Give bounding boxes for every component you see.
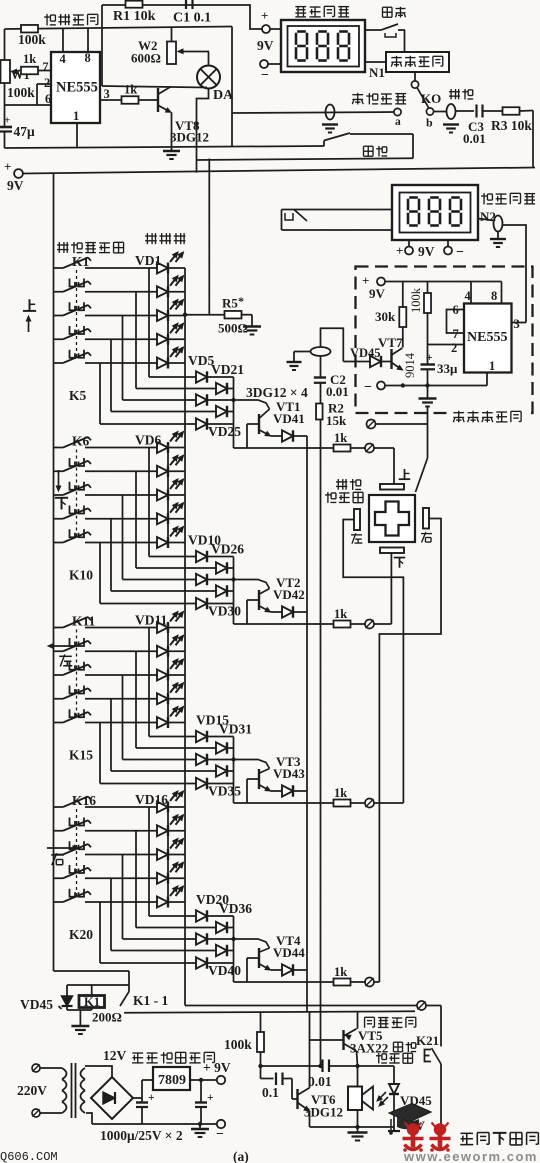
diode matrix row — [149, 371, 234, 382]
svg-text:3DG12: 3DG12 — [170, 130, 209, 145]
switch K3 — [54, 305, 92, 316]
transistor VT5 — [344, 1028, 384, 1051]
switch K6 — [54, 437, 92, 448]
svg-text:VD35: VD35 — [208, 784, 241, 799]
wire lamp bottom — [197, 89, 209, 161]
svg-text:0.01: 0.01 — [326, 384, 349, 399]
pin 2 U2 — [428, 341, 465, 355]
ground (speaker) — [348, 1127, 368, 1141]
jack (socket) on changeover — [322, 105, 338, 133]
diode matrix row — [111, 406, 234, 417]
wire key drop — [122, 675, 124, 760]
label 下 (dir) — [55, 470, 68, 510]
key coupler — [70, 506, 85, 514]
key coupler — [70, 458, 85, 466]
svg-text:6: 6 — [45, 92, 51, 106]
svg-text:0.01: 0.01 — [463, 131, 486, 146]
svg-text:−: − — [261, 68, 269, 83]
label VD35 — [208, 784, 241, 799]
pin 6 — [5, 92, 52, 106]
diode matrix row — [149, 731, 234, 742]
wire base feed — [247, 600, 259, 624]
LED VD19 — [157, 862, 184, 884]
label K20 — [69, 927, 93, 942]
LED VD5 — [157, 347, 184, 369]
label 外测提问键 — [57, 242, 124, 253]
svg-text:K20: K20 — [69, 927, 93, 942]
key coupler — [70, 482, 85, 490]
wire key drop — [135, 831, 137, 928]
node +9V supply — [4, 159, 24, 193]
diode matrix row — [100, 418, 234, 429]
wire key row — [85, 518, 185, 520]
label K5 — [69, 388, 87, 403]
switch counter2 reset — [282, 210, 393, 231]
wire key drop — [148, 448, 150, 557]
svg-text:3DG12 × 4: 3DG12 × 4 — [246, 385, 308, 400]
LED arrows — [377, 1092, 388, 1106]
svg-text:*: * — [238, 294, 244, 308]
wire bridge out — [133, 1080, 153, 1098]
svg-text:−: − — [216, 1127, 224, 1142]
diode matrix row — [111, 585, 234, 596]
svg-text:1: 1 — [73, 109, 79, 123]
wire left key bus — [54, 174, 130, 972]
diode VD42 — [271, 606, 308, 617]
lamp DA — [197, 66, 234, 104]
label K15 — [69, 748, 93, 763]
svg-text:220V: 220V — [17, 1083, 47, 1098]
svg-text:12V: 12V — [103, 1048, 127, 1063]
wire base hook — [234, 580, 270, 589]
LED VD8 — [157, 479, 184, 501]
wire key row — [85, 315, 185, 317]
resistor 1k row2 — [234, 607, 365, 628]
LED VD7 — [157, 455, 184, 477]
key 左 bar — [351, 509, 362, 544]
label 200 — [92, 1010, 122, 1025]
pin 1 U2 — [487, 359, 495, 386]
svg-text:K6: K6 — [72, 434, 90, 449]
jack C2 input — [287, 328, 344, 370]
key coupler — [70, 638, 85, 646]
wire key row — [85, 877, 185, 879]
diode matrix row — [123, 394, 234, 405]
wire key row — [85, 338, 185, 340]
svg-text:a: a — [395, 116, 401, 128]
svg-text:VD36: VD36 — [219, 901, 252, 916]
diode matrix row — [136, 383, 234, 394]
wire key drop — [110, 699, 112, 771]
svg-text:KO: KO — [421, 91, 441, 106]
node - out — [216, 1120, 225, 1142]
wire key row — [85, 362, 185, 364]
wire collector rail — [102, 86, 207, 88]
key coupler — [70, 302, 85, 310]
switch 内测 — [324, 133, 413, 158]
label VD40 — [208, 963, 241, 978]
transistor VT7 — [378, 335, 417, 378]
switch K7 — [54, 461, 92, 472]
wire VT5 emitter — [357, 1051, 358, 1066]
ground (psu) — [191, 1124, 209, 1137]
pin 3 — [100, 87, 121, 101]
resistor 1k (flash) — [21, 52, 51, 74]
wire 下 to row2 — [390, 553, 392, 624]
node - counter1 — [260, 60, 281, 83]
wire key row — [85, 291, 185, 293]
wire top flash rail — [5, 27, 233, 30]
switch K4 — [54, 329, 92, 340]
wire 右 to row4 — [379, 519, 441, 983]
label 3DG12x4 — [246, 385, 308, 400]
svg-text:K1: K1 — [72, 254, 90, 269]
svg-text:100k: 100k — [409, 287, 423, 313]
svg-text:N1: N1 — [369, 65, 385, 80]
wire 上 to row1 — [393, 448, 395, 484]
node N2 — [478, 209, 506, 247]
LED VD18 — [157, 839, 184, 861]
svg-text:VD26: VD26 — [211, 542, 244, 557]
label K10 — [69, 568, 93, 583]
label VD20 — [196, 892, 229, 907]
svg-text:3: 3 — [514, 317, 520, 331]
digits counter2 — [408, 198, 461, 226]
svg-text:VD45: VD45 — [350, 346, 381, 360]
label 上 (dir) — [23, 299, 36, 332]
wire long vertical x307 — [306, 436, 308, 1012]
wire key drop — [122, 855, 124, 940]
node row3 jack — [365, 799, 374, 808]
label VD36 — [219, 901, 252, 916]
transistor VT3 — [259, 754, 305, 791]
svg-text:+: + — [207, 1092, 214, 1104]
capacitor C2 0.01 — [314, 356, 349, 404]
resistor 100k (flash) — [18, 25, 46, 47]
wire key row — [85, 806, 185, 808]
diode VD45 (U2 input) — [343, 346, 391, 367]
label 转换开关 — [352, 93, 406, 105]
wire VT5 base — [310, 1039, 344, 1041]
key coupler — [70, 279, 85, 287]
label K16 — [72, 793, 96, 808]
ground (relay) — [71, 1010, 89, 1034]
wire key row — [85, 627, 185, 629]
svg-text:9V: 9V — [418, 244, 435, 259]
pin 3 U2 — [512, 317, 527, 331]
svg-text:100k: 100k — [7, 85, 35, 100]
svg-text:1k: 1k — [334, 965, 347, 979]
label K11 — [72, 614, 96, 629]
pin 1 — [73, 109, 79, 148]
svg-text:VD6: VD6 — [135, 433, 161, 448]
label 抗干扰电路 — [449, 409, 525, 424]
label VD16 — [135, 792, 168, 807]
svg-text:30k: 30k — [375, 309, 396, 324]
switch K15 — [54, 712, 92, 723]
label 右 (dir) — [47, 846, 78, 865]
label K1 — [72, 254, 90, 269]
wire VT6 emitter — [309, 1111, 311, 1127]
wire long vertical x320 — [320, 420, 322, 1067]
svg-text:DA: DA — [213, 88, 234, 103]
node bottom jack — [417, 1001, 426, 1010]
svg-text:7809: 7809 — [158, 1073, 186, 1088]
resistor 1k row3 — [234, 786, 365, 807]
wire key drop — [99, 363, 101, 424]
keypad cross — [375, 502, 409, 536]
label K6 — [72, 434, 90, 449]
resistor 1k (VT8 base) — [122, 83, 159, 104]
label 应答键 — [376, 1053, 413, 1064]
wire left vertical — [4, 29, 6, 127]
wire relay rail — [67, 984, 129, 986]
node diode bus group3 — [231, 737, 235, 804]
wire LED string — [167, 628, 169, 723]
label VD31 — [219, 722, 252, 737]
wire key drop — [99, 543, 101, 604]
wire key row — [85, 494, 185, 496]
wire key row — [85, 542, 185, 544]
svg-text:+ 9V: + 9V — [203, 1060, 231, 1075]
svg-text:0.01: 0.01 — [308, 1074, 332, 1089]
svg-text:VD11: VD11 — [135, 613, 168, 628]
op-amp U1 NE555 flash — [51, 52, 100, 123]
display counter2 — [392, 185, 478, 240]
wire row2 jack to 下 — [374, 623, 391, 625]
wire key drop — [148, 628, 150, 737]
wire lamp top — [208, 52, 210, 66]
svg-text:1000μ/25V × 2: 1000μ/25V × 2 — [100, 1128, 183, 1143]
label 左 (dir) — [48, 644, 78, 667]
key mechanical link — [76, 450, 78, 540]
svg-text:VD25: VD25 — [208, 424, 241, 439]
svg-text:Q606.COM: Q606.COM — [0, 1150, 58, 1163]
switch 清零 — [365, 7, 406, 52]
wire top rail T1 — [102, 5, 262, 29]
label 应答计数 — [481, 193, 535, 204]
LED VD13 — [157, 659, 184, 681]
LED VD9 — [157, 503, 184, 525]
svg-text:K21: K21 — [416, 1033, 439, 1048]
regulator 7809 — [153, 1067, 190, 1090]
wire secondary top — [85, 1066, 112, 1077]
label 内测 — [364, 146, 388, 157]
svg-text:600Ω: 600Ω — [131, 51, 161, 66]
key mechanical link — [76, 809, 78, 899]
wire key drop — [99, 902, 101, 963]
svg-text:200Ω: 200Ω — [92, 1010, 122, 1025]
switch K9 — [54, 508, 92, 519]
wire vertical x209 — [208, 159, 210, 315]
LED VD4 — [157, 323, 184, 345]
pin 4 U2 — [465, 282, 472, 304]
logo www.eeworm.com — [403, 1149, 538, 1163]
wire psu bottom — [92, 1122, 217, 1126]
svg-text:2: 2 — [44, 76, 50, 90]
node row4 jack — [365, 978, 374, 987]
LED VD6 — [157, 432, 184, 454]
capacitor C3 0.01 — [456, 105, 503, 147]
label 9V — [388, 1118, 426, 1133]
wire key row — [85, 447, 185, 449]
wire bottom bus — [185, 1005, 417, 1007]
resistor R5 500 — [183, 294, 261, 336]
svg-text:47μ: 47μ — [14, 124, 36, 139]
logo 电子下载站 — [460, 1133, 538, 1145]
label 提问计数 — [295, 6, 349, 17]
svg-text:15k: 15k — [326, 413, 347, 428]
switch K5 — [54, 353, 92, 364]
label VD30 — [208, 604, 241, 619]
svg-text:−: − — [456, 245, 464, 260]
svg-text:−: − — [364, 380, 372, 395]
svg-text:VD42: VD42 — [273, 587, 305, 602]
label 发光管 — [145, 233, 185, 244]
diode matrix row — [100, 957, 234, 968]
pins 6 7 bracket — [447, 303, 465, 341]
wire LED string — [167, 268, 169, 363]
label 外测应答键 — [325, 479, 363, 503]
switch K20 — [54, 892, 92, 903]
switch K10 — [54, 532, 92, 543]
diode matrix row — [111, 945, 234, 956]
box 抗扰电路 — [386, 52, 449, 72]
wire base feed — [247, 779, 259, 803]
wire diag to pad — [416, 424, 428, 492]
LED VD3 — [157, 300, 184, 322]
wire K1-1 line — [124, 1011, 415, 1013]
wire line B +9V rail — [23, 168, 535, 174]
wire bottom sound rail — [310, 1125, 395, 1129]
label VD10 — [188, 533, 221, 548]
svg-text:1k: 1k — [124, 83, 137, 97]
svg-text:33μ: 33μ — [437, 361, 458, 376]
node diode bus group2 — [231, 557, 235, 625]
switch KO — [411, 81, 441, 130]
transistor VT4 — [259, 933, 305, 970]
svg-text:9V: 9V — [369, 286, 386, 301]
pin 4 — [60, 29, 67, 66]
node + counter1 — [261, 8, 281, 33]
key 右 bar — [421, 508, 432, 542]
wire dashed box bottom rail — [385, 383, 487, 387]
wire line A — [5, 146, 325, 148]
logo mortarboard — [389, 1104, 431, 1135]
wire key drop — [122, 316, 124, 401]
wire key row — [85, 854, 185, 856]
wire 左 to row3 — [343, 520, 403, 804]
key mechanical link — [76, 270, 78, 360]
bridge rectifier — [91, 1077, 133, 1119]
terminals counter2 9V — [396, 240, 464, 260]
display counter1 — [281, 20, 365, 72]
svg-text:+: + — [261, 8, 268, 23]
label 电源供给电路 — [132, 1052, 214, 1063]
wire LED string — [167, 807, 169, 902]
transistor VT1 — [259, 399, 305, 436]
node diode bus group1 — [231, 377, 235, 448]
svg-text:1k: 1k — [334, 607, 347, 621]
wire key drop — [122, 495, 124, 580]
wire W2 wiper — [178, 49, 209, 53]
wire base hook — [234, 760, 270, 769]
wire dashed box top rail — [385, 281, 502, 283]
LED VD15 — [157, 707, 184, 729]
resistor 100k (sound) — [224, 1012, 264, 1066]
transistor VT2 — [259, 575, 305, 612]
wire key row — [85, 901, 185, 903]
switch K12 — [54, 641, 92, 652]
diode matrix row — [149, 551, 234, 562]
svg-text:R1 10k: R1 10k — [113, 9, 156, 24]
resistor 30k — [375, 282, 406, 348]
svg-text:R3 10k: R3 10k — [491, 118, 532, 133]
wire base feed — [247, 424, 259, 448]
svg-text:9V: 9V — [7, 178, 24, 193]
svg-text:7: 7 — [453, 327, 459, 341]
svg-text:(a): (a) — [233, 1149, 249, 1163]
node row1 jack — [365, 444, 374, 453]
label 声响电路 — [365, 1017, 416, 1027]
wire N2 to box — [503, 225, 527, 323]
svg-text:1: 1 — [489, 359, 495, 373]
pin 7 label — [43, 59, 49, 73]
svg-text:9V: 9V — [257, 38, 274, 53]
resistor R1 10k — [113, 1, 156, 24]
svg-text:K11: K11 — [72, 614, 96, 629]
svg-text:b: b — [426, 116, 433, 130]
wire key row — [85, 470, 185, 472]
svg-text:8: 8 — [491, 289, 497, 303]
wire key drop — [148, 807, 150, 916]
svg-text:K1: K1 — [84, 995, 100, 1009]
label 220V — [17, 1083, 47, 1098]
svg-text:+: + — [426, 352, 433, 364]
wire vertical x232 — [231, 27, 233, 147]
potentiometer W1 — [1, 60, 36, 100]
wire VT5 collector — [357, 1012, 359, 1029]
wire LED string — [167, 448, 169, 543]
capacitor 0.01 (sound) — [308, 1060, 360, 1090]
svg-text:100k: 100k — [224, 1037, 252, 1052]
pin 8 — [85, 28, 91, 65]
wire key drop — [148, 268, 150, 377]
wire base hook — [234, 939, 270, 948]
svg-text:NE555: NE555 — [467, 330, 507, 345]
label VD21 — [211, 362, 244, 377]
diode matrix row — [100, 778, 234, 789]
label VD26 — [211, 542, 244, 557]
svg-text:+: + — [396, 243, 403, 258]
key coupler — [70, 889, 85, 897]
box 抗干扰电路 (dashed) — [356, 267, 533, 414]
wire key drop — [135, 292, 137, 389]
wire key drop — [135, 471, 137, 568]
wire base hook — [234, 400, 270, 409]
key coupler — [70, 686, 85, 694]
key coupler — [70, 529, 85, 537]
relay K1 — [79, 985, 105, 1010]
svg-text:+: + — [4, 115, 10, 127]
svg-text:VD41: VD41 — [273, 411, 305, 426]
svg-text:R5: R5 — [222, 296, 238, 311]
svg-text:K15: K15 — [69, 748, 93, 763]
label VD15 — [196, 713, 229, 728]
pin 8 U2 — [491, 282, 502, 304]
LED VD45 (indicator) — [358, 1066, 433, 1130]
capacitor C1 0.1 — [173, 0, 211, 26]
